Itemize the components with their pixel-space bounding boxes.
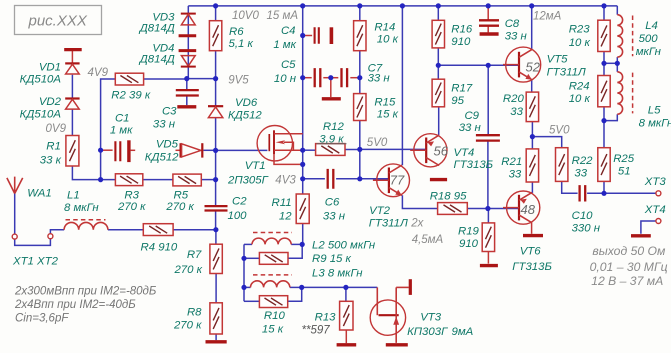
svg-text:500: 500: [639, 33, 659, 45]
svg-text:270 к: 270 к: [173, 320, 202, 332]
core line L1: [66, 219, 106, 221]
node rail R16: [436, 3, 441, 8]
svg-text:R5: R5: [174, 189, 189, 201]
wire R23 to node: [603, 52, 605, 64]
svg-text:R17: R17: [451, 82, 473, 94]
svg-text:R1: R1: [46, 141, 61, 153]
node C5 C7 mid: [328, 75, 333, 80]
resistor R15: [354, 94, 366, 121]
terminal XT4: [656, 219, 661, 224]
wire terminal bar to VD1: [71, 51, 73, 63]
svg-text:330 н: 330 н: [572, 222, 601, 234]
svg-text:9мА: 9мА: [452, 326, 474, 338]
wire R25 to output node: [603, 181, 605, 193]
wire node to XT3: [604, 192, 656, 194]
node rail R14: [357, 3, 362, 8]
svg-text:910: 910: [451, 36, 471, 48]
wire 5V0 to R21: [531, 137, 533, 149]
ground R8: [206, 340, 227, 343]
node R4 R7: [213, 227, 218, 232]
node C6 R11: [300, 176, 305, 181]
wire to C5: [303, 77, 312, 79]
svg-text:77: 77: [390, 173, 405, 188]
resistor R6: [209, 21, 221, 51]
wire C7 to R14 R15 node: [350, 77, 360, 79]
svg-text:R9 15 к: R9 15 к: [312, 253, 352, 265]
node R16 R17: [436, 63, 441, 68]
svg-text:R25: R25: [613, 153, 635, 165]
wire C8 to ground: [487, 26, 489, 33]
wire 5V0 node to VT4 base: [360, 148, 426, 150]
svg-text:C1: C1: [115, 113, 130, 125]
node 5V0 right: [530, 134, 535, 139]
svg-text:ГТ313Б: ГТ313Б: [454, 159, 494, 171]
svg-text:R15: R15: [374, 96, 396, 108]
wire stub VD5 left: [176, 149, 181, 151]
title box рис.XXX: [15, 6, 102, 35]
resistor R7: [210, 244, 222, 273]
wire +12V top rail: [188, 5, 617, 7]
svg-text:270 к: 270 к: [117, 201, 146, 213]
node C7 R15: [357, 75, 362, 80]
wire C2 to R4 node: [215, 211, 217, 229]
svg-text:VD1: VD1: [39, 61, 61, 73]
svg-text:2х300мВпп при IМ2=-80дБ: 2х300мВпп при IМ2=-80дБ: [14, 286, 157, 298]
resistor R11: [296, 194, 309, 224]
svg-text:33 к: 33 к: [40, 155, 62, 167]
svg-text:10 к: 10 к: [377, 33, 399, 45]
svg-text:Cin=3,6pF: Cin=3,6pF: [15, 313, 69, 325]
svg-text:R21: R21: [501, 156, 522, 168]
svg-text:56: 56: [434, 144, 449, 159]
svg-text:15 к: 15 к: [262, 323, 284, 335]
capacitor C8: [479, 20, 499, 25]
wire R10 right join: [288, 287, 302, 301]
resistor R8: [210, 303, 222, 334]
node 5V0 left: [357, 147, 362, 152]
svg-text:puc.XXX: puc.XXX: [28, 12, 88, 29]
svg-text:C5: C5: [281, 59, 296, 71]
svg-text:33 н: 33 н: [459, 122, 482, 134]
node R13 top: [343, 285, 348, 290]
svg-text:С3: С3: [162, 105, 177, 117]
ground R19: [480, 264, 498, 267]
wire R2 right to 9V5 chain: [144, 78, 187, 80]
wire transformer left vertical: [243, 244, 245, 301]
svg-text:15 к: 15 к: [377, 108, 399, 120]
svg-text:2П305Г: 2П305Г: [227, 174, 269, 186]
capacitor C2: [205, 206, 228, 210]
svg-text:R2 39 к: R2 39 к: [111, 90, 151, 102]
wire VD3 VD4 chain vertical: [187, 6, 189, 79]
wire R5 to node: [201, 179, 215, 181]
svg-text:ХТ1 ХТ2: ХТ1 ХТ2: [12, 256, 59, 268]
svg-text:Д814Д: Д814Д: [138, 22, 175, 34]
svg-text:95: 95: [451, 95, 464, 107]
wire node to R24: [603, 63, 605, 75]
wire R2 left 4V9 vertical: [101, 79, 116, 180]
wire R9 left lead: [244, 257, 259, 259]
node VD5 gate: [213, 148, 218, 153]
wire 9V5 to C3: [186, 79, 188, 90]
ground C3: [177, 105, 196, 108]
wire R20 to 5V0 rail: [531, 122, 533, 137]
svg-text:L1: L1: [67, 190, 80, 202]
svg-text:VT5: VT5: [547, 54, 569, 66]
node C1 4V9: [98, 148, 103, 153]
wire R23 L4 node join: [604, 62, 617, 64]
svg-text:КД510А: КД510А: [20, 108, 61, 120]
svg-text:мкГн: мкГн: [636, 46, 662, 58]
svg-text:Д814Д: Д814Д: [138, 54, 175, 66]
wire R10 left lead: [244, 300, 259, 302]
wire node to R19: [487, 209, 489, 223]
capacitor C7: [342, 68, 348, 87]
wire node to L5: [616, 63, 618, 72]
ground C5 C7 node: [322, 97, 341, 100]
wire node to R11: [302, 179, 304, 194]
node R23 R24: [601, 61, 606, 66]
wire rail to VT5 collector: [531, 6, 533, 50]
node R24 R25: [601, 118, 606, 123]
svg-text:4V9: 4V9: [88, 67, 109, 79]
node rail C8: [486, 3, 491, 8]
svg-text:5,1 к: 5,1 к: [229, 38, 254, 50]
svg-text:VT6: VT6: [520, 246, 542, 258]
node C6 VT2: [357, 176, 362, 181]
svg-text:VT4: VT4: [454, 147, 475, 159]
svg-text:VT3: VT3: [420, 312, 442, 324]
svg-text:С6: С6: [325, 197, 340, 209]
wire L5 to R24 node: [604, 114, 617, 120]
transistor VT6: [503, 191, 540, 224]
wire L1 to R4: [108, 229, 143, 231]
inductor L1: [64, 222, 108, 229]
wire C6 to 5V0 branch: [336, 178, 360, 180]
svg-text:VT1: VT1: [245, 160, 266, 172]
svg-text:R3: R3: [124, 189, 139, 201]
resistor R9: [259, 253, 288, 265]
svg-text:R7: R7: [187, 249, 202, 261]
node L4 L5: [615, 61, 620, 66]
resistor R21: [526, 149, 538, 182]
wire node to R7: [215, 230, 217, 245]
inductor L5: [617, 72, 622, 114]
svg-text:VD5: VD5: [156, 138, 179, 150]
wire XT4 to ground: [641, 221, 656, 234]
node 9V5 left: [184, 76, 189, 81]
svg-text:VD6: VD6: [235, 97, 258, 109]
svg-text:33 н: 33 н: [505, 31, 528, 43]
wire L2 R9 right join: [288, 244, 302, 258]
resistor R23: [598, 20, 610, 51]
core line L3: [253, 274, 292, 276]
svg-text:C2: C2: [232, 196, 247, 208]
svg-text:2х4Впп при IМ2=-40дБ: 2х4Впп при IМ2=-40дБ: [14, 299, 136, 311]
svg-text:12: 12: [279, 211, 292, 223]
wire L3 left lead: [244, 286, 251, 288]
wire R22 to C10: [562, 181, 578, 193]
wire 9V5 to VD6: [215, 79, 217, 106]
node rail R23: [601, 3, 606, 8]
transistor VT2: [373, 164, 410, 197]
svg-text:R23: R23: [569, 23, 591, 35]
capacitor C10: [580, 185, 586, 201]
wire antenna to XT1: [14, 194, 16, 235]
svg-text:L4: L4: [645, 20, 658, 32]
wire VD5 to gate node: [204, 149, 216, 151]
resistor R24: [598, 76, 610, 107]
svg-text:C4: C4: [281, 25, 296, 37]
svg-text:33 н: 33 н: [323, 211, 346, 223]
svg-text:R12: R12: [323, 121, 345, 133]
svg-text:КД512: КД512: [228, 110, 262, 122]
wire L3 right lead: [290, 286, 302, 288]
node VT1 source: [300, 148, 305, 153]
wire VT2 emitter to R18: [402, 195, 437, 208]
svg-text:1 мк: 1 мк: [273, 39, 296, 51]
svg-text:910: 910: [459, 238, 479, 250]
capacitor C5: [315, 68, 321, 87]
terminal XT3: [656, 191, 661, 196]
resistor R2: [115, 73, 143, 85]
wire R21 to VT6 collector: [531, 182, 533, 193]
node rail R6: [213, 3, 218, 8]
wire R6 to 9V5: [215, 51, 217, 79]
wire VD1 to VD2: [71, 75, 73, 99]
wire VT5 emitter to R20: [531, 79, 533, 92]
svg-text:С9: С9: [464, 110, 479, 122]
node rail main vert: [300, 3, 305, 8]
node C5: [300, 75, 305, 80]
wire to C4: [303, 35, 312, 37]
antenna WA1: [7, 177, 23, 194]
value underline R12: [317, 143, 347, 145]
node L3 left: [241, 285, 246, 290]
ground C8: [480, 32, 499, 35]
svg-text:10 н: 10 н: [274, 73, 297, 85]
svg-text:33: 33: [509, 168, 522, 180]
wire C3 to ground: [186, 96, 188, 105]
wire C5 to C7 mid node: [323, 77, 338, 79]
resistor R1: [66, 136, 79, 167]
zener VD4: [179, 51, 197, 67]
svg-text:33: 33: [510, 106, 523, 118]
JFET VT3: [370, 279, 410, 343]
core line L5: [632, 73, 634, 114]
wire node to R25: [603, 121, 605, 148]
node VT6 base: [485, 206, 490, 211]
wire 9V5 node row: [187, 78, 216, 80]
resistor R20: [526, 92, 538, 122]
wire R24 to node: [603, 107, 605, 121]
wire VT1 source to R12: [303, 149, 316, 151]
node R9 left: [241, 256, 246, 261]
resistor R22: [556, 148, 568, 182]
wire VT6 emitter to ground: [531, 222, 533, 233]
svg-text:270 к: 270 к: [165, 201, 194, 213]
wire rail to VT2 collector: [401, 6, 403, 165]
svg-text:48: 48: [521, 202, 536, 217]
svg-text:КД512: КД512: [145, 152, 179, 164]
svg-text:52: 52: [526, 60, 541, 75]
wire C10 to R25 node: [587, 192, 604, 194]
svg-text:R18 95: R18 95: [430, 191, 467, 203]
svg-text:выход 50 Ом: выход 50 Ом: [592, 244, 666, 258]
svg-text:С8: С8: [505, 18, 520, 30]
node rail VT5: [529, 3, 534, 8]
wire gate node to divider node: [215, 150, 217, 179]
svg-text:ГТ311Л: ГТ311Л: [369, 218, 408, 230]
node C4: [300, 33, 305, 38]
wire R8 to ground: [215, 334, 217, 340]
svg-text:R19: R19: [458, 226, 480, 238]
resistor R16: [432, 20, 444, 48]
svg-text:8 мкГн: 8 мкГн: [639, 118, 671, 130]
svg-text:51: 51: [618, 166, 631, 178]
svg-text:R11: R11: [272, 197, 292, 209]
svg-text:L5: L5: [648, 104, 661, 116]
diode VD6: [208, 106, 223, 117]
MOSFET VT1: [257, 126, 303, 165]
diode VD5: [181, 143, 203, 157]
wire R15 to 5V0 node: [359, 121, 361, 150]
resistor R14: [354, 21, 366, 51]
svg-text:R8: R8: [187, 307, 202, 319]
svg-text:R4 910: R4 910: [141, 242, 178, 254]
svg-text:10V0: 10V0: [232, 10, 259, 22]
transistor VT4: [410, 134, 447, 167]
wire R1 to R3 row: [72, 166, 115, 180]
svg-text:270 к: 270 к: [173, 264, 202, 276]
svg-text:1 мк: 1 мк: [110, 125, 133, 137]
wire R13 to ground: [345, 330, 347, 343]
svg-text:R20: R20: [503, 93, 525, 105]
svg-text:2х: 2х: [410, 218, 424, 230]
wire stub C1 right: [131, 149, 136, 151]
resistor R3: [115, 174, 142, 186]
terminal XT2: [48, 234, 53, 239]
capacitor C4: [315, 27, 319, 43]
resistor R10: [259, 296, 287, 308]
node VT1 bottom: [300, 162, 305, 167]
node L2 R11: [300, 242, 305, 247]
svg-text:R22: R22: [572, 155, 594, 167]
wire XT2 to L1: [50, 230, 64, 234]
wire VD6 to gate node: [215, 118, 217, 151]
inductor L2: [252, 238, 291, 244]
svg-text:R10: R10: [264, 310, 286, 322]
wire rail to R23: [603, 6, 605, 20]
wire R18 to VT6 base: [467, 208, 519, 210]
svg-text:4V3: 4V3: [275, 174, 296, 186]
resistor R13: [340, 301, 353, 330]
svg-text:WA1: WA1: [27, 188, 51, 200]
svg-text:10 к: 10 к: [569, 37, 591, 49]
svg-text:R13: R13: [315, 312, 337, 324]
wire node to R13: [345, 287, 347, 301]
core line L4: [632, 16, 634, 57]
capacitor C3: [176, 90, 199, 95]
diode VD1: [65, 63, 79, 74]
svg-text:8 мкГн: 8 мкГн: [64, 202, 99, 214]
wire XT1 to XT2 loop: [15, 239, 51, 246]
svg-text:КД510А: КД510А: [20, 73, 61, 85]
ground VT3: [386, 343, 408, 346]
svg-text:12 В – 37 мА: 12 В – 37 мА: [591, 274, 663, 288]
svg-text:9V5: 9V5: [228, 75, 249, 87]
wire main vertical rail to C6 node: [302, 6, 304, 179]
wire L2 left lead: [244, 243, 252, 245]
resistor R19: [482, 223, 494, 252]
svg-text:**597: **597: [302, 325, 331, 337]
svg-text:4,5мА: 4,5мА: [412, 234, 444, 246]
svg-text:33 н: 33 н: [368, 73, 391, 85]
wire 5V0 node to C6 node: [359, 149, 361, 178]
wire rail corner to L4: [616, 6, 618, 15]
svg-text:VT2: VT2: [369, 205, 391, 217]
wire mid node to ground: [330, 78, 332, 97]
diode VD2: [65, 99, 79, 110]
wire to VT2 base: [360, 178, 389, 180]
wire bottom row to VT3: [302, 286, 378, 288]
svg-text:VD2: VD2: [39, 96, 62, 108]
svg-text:ГТ311Л: ГТ311Л: [547, 66, 586, 78]
wire C9 to VT6 base node: [487, 140, 489, 208]
inductor L3: [251, 281, 290, 288]
wire R4 to node: [173, 229, 216, 231]
wire divider node to C2: [215, 180, 217, 206]
wire R16 to R17: [437, 48, 439, 79]
ground VT6 collector: [523, 234, 543, 237]
ground R13: [337, 343, 357, 346]
capacitor C1: [115, 141, 120, 161]
resistor R12: [316, 144, 345, 156]
wire 5V0 rail to R22: [532, 137, 562, 148]
node divider: [213, 177, 218, 182]
svg-text:33: 33: [574, 167, 587, 179]
svg-text:R6: R6: [229, 26, 244, 38]
wire R16 bottom to VT5 base: [438, 64, 519, 66]
svg-text:10 к: 10 к: [569, 93, 591, 105]
wire R7 to R8: [215, 274, 217, 303]
wire R12 to 5V0 node: [345, 149, 360, 151]
resistor R18: [438, 203, 468, 215]
wire R19 to ground: [487, 252, 489, 264]
svg-text:КП303Г: КП303Г: [407, 326, 448, 338]
wire R17 to VT4 emitter: [438, 107, 440, 136]
ground XT4: [631, 234, 651, 237]
core line L2: [253, 232, 292, 234]
wire base rail to C9: [487, 65, 489, 135]
svg-text:12мА: 12мА: [533, 10, 562, 22]
svg-text:5V0: 5V0: [549, 125, 570, 137]
inductor L4: [617, 15, 622, 57]
resistor R4: [143, 224, 173, 236]
ground VT4 collector: [430, 178, 447, 181]
svg-text:ГТ313Б: ГТ313Б: [512, 261, 552, 273]
wire rail to R16: [437, 6, 439, 20]
resistor R5: [173, 174, 201, 186]
svg-text:33 н: 33 н: [153, 118, 176, 130]
wire node to C6: [303, 178, 325, 180]
svg-text:5V0: 5V0: [367, 137, 388, 149]
wire R11 to L2 node: [301, 224, 304, 245]
wire L4 to node: [616, 57, 618, 63]
svg-text:R24: R24: [569, 80, 590, 92]
svg-text:ХТ3: ХТ3: [644, 176, 667, 188]
terminal XT1: [12, 234, 17, 239]
